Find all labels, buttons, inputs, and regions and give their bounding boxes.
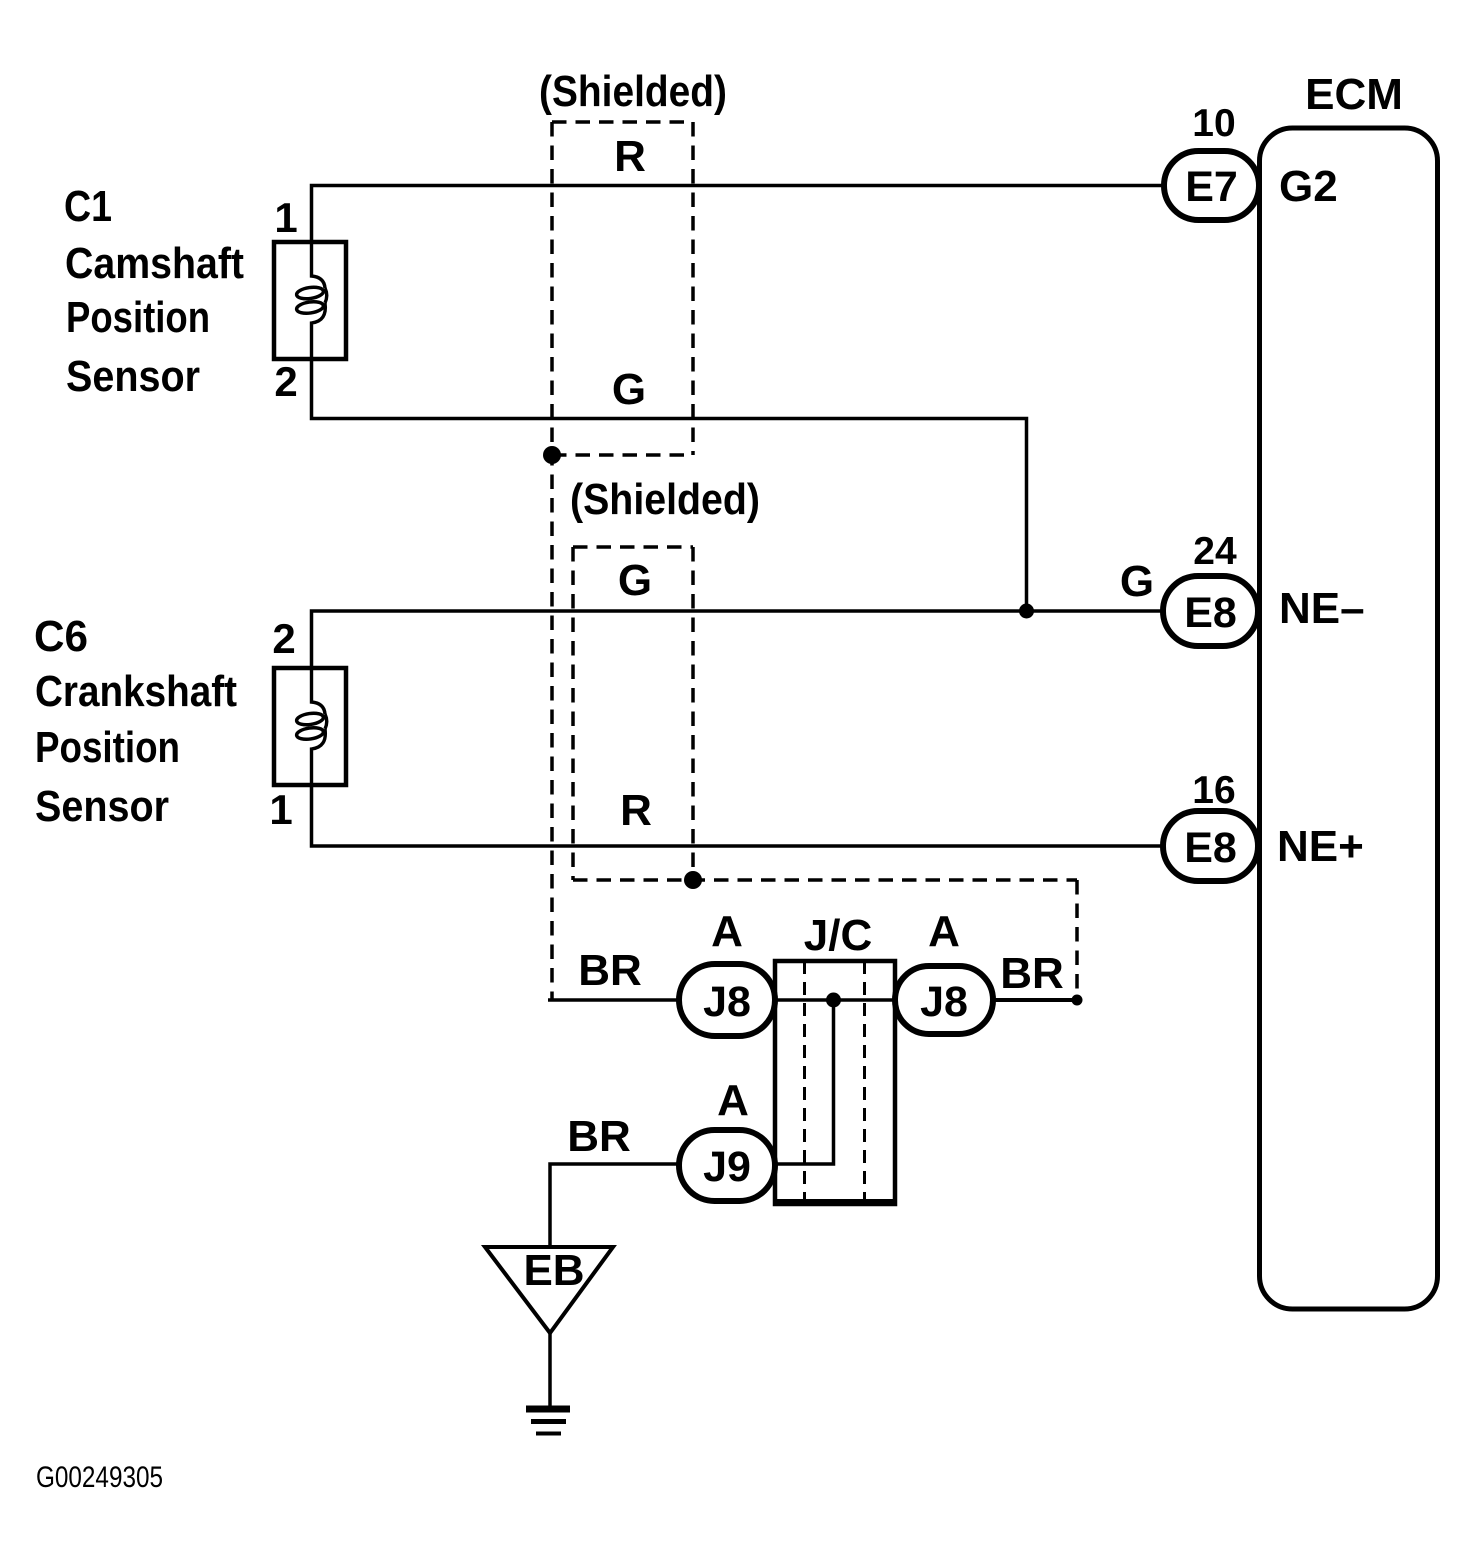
label (Shielded) 2 [570, 475, 760, 524]
E8 connector (NE-) [1163, 576, 1258, 646]
svg-text:C1: C1 [64, 182, 112, 231]
svg-text:2: 2 [272, 615, 295, 662]
terminal NE- [1279, 584, 1365, 633]
svg-text:G00249305: G00249305 [36, 1461, 163, 1494]
svg-text:A: A [717, 1076, 749, 1125]
connector J8 left [679, 964, 775, 1036]
label R wire [614, 132, 646, 181]
wire R from C1 pin 1 to E7 [312, 186, 1165, 243]
svg-text:G2: G2 [1279, 162, 1338, 211]
pin 1 of C1 [274, 194, 297, 241]
label C6 Crankshaft Position Sensor [34, 612, 237, 831]
pin 2 of C6 [272, 615, 295, 662]
wire through J/C [775, 998, 895, 1002]
BR shield drain wire right [993, 995, 1083, 1006]
wire from J/C dot down to J9 [775, 1000, 834, 1164]
svg-text:J8: J8 [703, 978, 751, 1026]
svg-text:A: A [928, 907, 960, 956]
svg-text:BR: BR [578, 946, 642, 995]
junction dot in J/C [826, 993, 841, 1008]
svg-text:NE–: NE– [1279, 584, 1365, 633]
E8 connector (NE+) [1163, 811, 1258, 881]
label J/C [804, 911, 872, 960]
pin number 24 [1193, 530, 1237, 573]
E7 connector [1164, 151, 1259, 220]
svg-text:(Shielded): (Shielded) [539, 67, 727, 116]
svg-text:R: R [620, 786, 652, 835]
wire R from C6 pin 1 to E8 (NE+) [312, 785, 1164, 846]
shield box 2 (C6 wires) [573, 547, 1077, 1000]
svg-text:Sensor: Sensor [66, 352, 200, 401]
connector J8 right [895, 966, 993, 1034]
crankshaft sensor C6 body [274, 668, 346, 785]
terminal G2 [1279, 162, 1338, 211]
pin number 16 [1192, 769, 1235, 812]
svg-text:G: G [1120, 557, 1154, 606]
label (Shielded) 1 [539, 67, 727, 116]
figure number G00249305 [36, 1461, 163, 1494]
svg-text:J8: J8 [920, 978, 968, 1026]
label BR left [578, 946, 642, 995]
svg-text:10: 10 [1192, 102, 1235, 145]
svg-text:Camshaft: Camshaft [65, 239, 244, 288]
svg-text:Sensor: Sensor [35, 782, 169, 831]
label G wire [612, 365, 646, 414]
label G near E8 [1120, 557, 1154, 606]
BR ground wire from J9 [550, 1164, 679, 1247]
connector J9 [679, 1130, 775, 1201]
label A for J9 [717, 1076, 749, 1125]
svg-text:A: A [711, 907, 743, 956]
label G wire 2 [618, 556, 652, 605]
label A left [711, 907, 743, 956]
pin 1 of C6 [269, 786, 292, 833]
terminal NE+ [1277, 822, 1364, 871]
pin number 10 [1192, 102, 1235, 145]
camshaft sensor C1 body [274, 242, 346, 359]
svg-text:2: 2 [274, 358, 297, 405]
svg-text:1: 1 [274, 194, 297, 241]
wire G from C1 pin 2 down to NE- junction [312, 359, 1027, 611]
pin 2 of C1 [274, 358, 297, 405]
label C1 Camshaft Position Sensor [64, 182, 244, 401]
shield junction dot 1 [543, 446, 561, 464]
svg-text:BR: BR [1000, 949, 1064, 998]
label R wire 2 [620, 786, 652, 835]
svg-text:1: 1 [269, 786, 292, 833]
BR shield drain wire left [548, 998, 679, 1002]
svg-text:E8: E8 [1184, 589, 1237, 637]
svg-text:BR: BR [567, 1112, 631, 1161]
svg-text:J/C: J/C [804, 911, 872, 960]
shield box 1 (C1 wires) [552, 122, 693, 999]
svg-text:(Shielded): (Shielded) [570, 475, 760, 524]
svg-text:ECM: ECM [1305, 70, 1403, 119]
label A right [928, 907, 960, 956]
label BR right [1000, 949, 1064, 998]
ECM label [1305, 70, 1403, 119]
wire EB to ground [548, 1333, 552, 1406]
wire G from C6 pin 2 to E8 (NE-) [312, 611, 1164, 668]
svg-text:Crankshaft: Crankshaft [35, 667, 237, 716]
svg-text:E7: E7 [1185, 163, 1238, 211]
shield junction dot 2 [684, 871, 702, 889]
ground point EB triangle [485, 1246, 613, 1333]
label BR for J9 [567, 1112, 631, 1161]
svg-text:EB: EB [523, 1246, 584, 1295]
svg-text:G: G [618, 556, 652, 605]
junction block J/C [773, 961, 897, 1204]
svg-text:G: G [612, 365, 646, 414]
svg-text:Position: Position [66, 293, 210, 342]
svg-text:24: 24 [1193, 530, 1237, 573]
ECM box [1260, 128, 1438, 1309]
svg-text:C6: C6 [34, 612, 88, 661]
svg-text:NE+: NE+ [1277, 822, 1364, 871]
svg-text:16: 16 [1192, 769, 1235, 812]
svg-text:E8: E8 [1184, 824, 1237, 872]
junction dot NE- [1019, 604, 1034, 619]
svg-text:Position: Position [35, 723, 180, 772]
ground symbol [526, 1409, 570, 1434]
svg-text:J9: J9 [703, 1143, 751, 1191]
svg-text:R: R [614, 132, 646, 181]
